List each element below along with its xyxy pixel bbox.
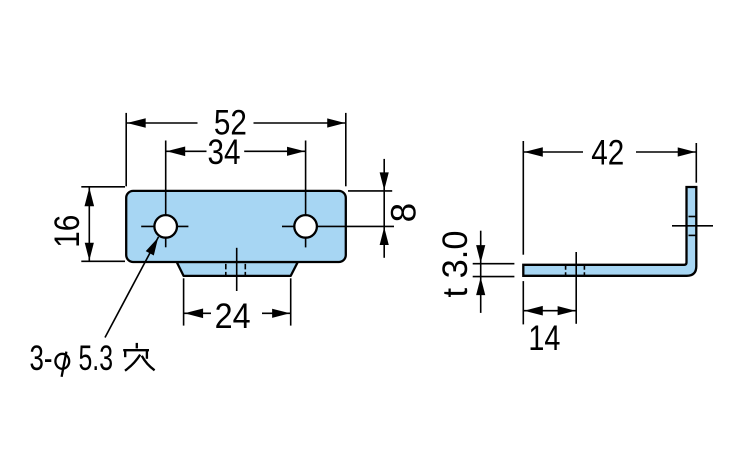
plate tab (bottom protrusion, left view): [177, 262, 298, 276]
dimension 42 line with arrows: [523, 151, 696, 153]
hole H1 center lines: [141, 141, 188, 248]
dimension 34 line with arrows: [166, 150, 306, 152]
vertical leg hidden hole lines (dashed): [689, 217, 697, 236]
dimension 8 arrows: [383, 159, 385, 258]
tab center line: [236, 248, 238, 291]
vertical leg center line: [672, 225, 713, 227]
dimension 24 line with arrows: [184, 312, 291, 314]
dimension 16 extension lines: [81, 187, 125, 261]
dimension 24 extension lines: [184, 278, 291, 325]
horizontal leg center line: [575, 252, 577, 324]
dimension 16 line with arrows: [88, 187, 90, 261]
L profile (right view): [523, 187, 696, 276]
svg-text:3-: 3-: [30, 339, 53, 378]
svg-text:t 3.0: t 3.0: [436, 231, 475, 298]
dimension t3.0 text (rotated): [436, 231, 475, 298]
svg-text:8: 8: [385, 203, 424, 222]
dimension 52 extension lines: [126, 113, 346, 186]
horizontal leg hidden hole lines (dashed): [566, 264, 585, 276]
phi symbol (drawn): [55, 352, 69, 377]
plate outline (left view, 52x16 plate): [126, 191, 346, 262]
svg-text:5.3: 5.3: [79, 339, 114, 378]
dimension 14 line with arrows: [523, 310, 576, 312]
dimension t3.0 extension lines: [473, 264, 515, 277]
tab hidden hole lines (dashed): [226, 264, 246, 276]
dimension 8 extension line (plate top edge extended): [348, 190, 392, 192]
hole H2 (phi 5.3): [294, 215, 317, 238]
svg-text:42: 42: [591, 133, 624, 172]
hole H1 (phi 5.3): [154, 215, 177, 238]
svg-text:24: 24: [215, 297, 251, 336]
hole note text 3-phi5.3: [30, 339, 114, 378]
leader line to hole H1: [105, 237, 159, 338]
kanji ana (hole) drawn glyph: [123, 343, 154, 371]
hole H2 center lines: [282, 141, 394, 248]
dimension 42 extension lines: [523, 141, 696, 255]
dimension 14 extension line: [522, 281, 524, 324]
svg-text:14: 14: [528, 319, 560, 358]
svg-text:34: 34: [208, 133, 241, 172]
dimension 8 text (rotated): [385, 203, 424, 222]
dimension t3.0 arrows: [480, 231, 482, 313]
dimension 52 line with arrows: [126, 122, 346, 124]
svg-text:16: 16: [48, 215, 87, 248]
dimension 16 text (rotated): [48, 215, 87, 248]
